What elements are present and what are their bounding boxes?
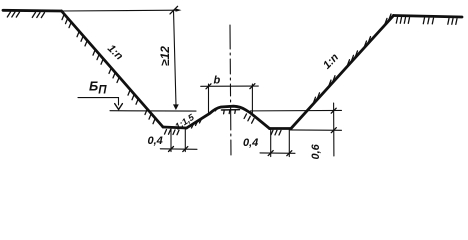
slope hatching left group 4 xyxy=(109,69,119,83)
dimension 0,6 slash top xyxy=(331,108,336,113)
ditch bottom hatching left xyxy=(165,130,180,135)
centre axis dash-dot line xyxy=(230,25,231,158)
mound crest tick 1 xyxy=(223,110,226,113)
berm level line right xyxy=(251,109,342,112)
slope hatching left group 3 xyxy=(93,50,103,64)
dimension 0,4 left extension 2 xyxy=(184,129,186,152)
dimension 0,6 slash bottom xyxy=(331,128,336,133)
dimension 0,4 left line xyxy=(160,148,197,151)
mound crest shoulder tick xyxy=(215,107,218,110)
dimension 0,4 right slash 2 xyxy=(287,151,292,156)
svg-text:1:n: 1:n xyxy=(321,51,341,71)
svg-text:b: b xyxy=(214,75,221,87)
mound left slope hatching xyxy=(192,119,202,128)
dimension 0,4 right extension 1 xyxy=(270,129,272,156)
ditch bottom level extension line right xyxy=(290,129,342,131)
dimension 0,6 vertical line xyxy=(333,103,335,156)
slope line 1:n left xyxy=(62,11,164,127)
dimension 0,4 right slash 1 xyxy=(268,151,273,156)
slope hatching right group 1 xyxy=(314,93,320,103)
mound crest level mark dash xyxy=(222,109,240,111)
berm level line left xyxy=(110,110,196,112)
svg-text:БП: БП xyxy=(89,79,107,97)
svg-text:0,6: 0,6 xyxy=(310,143,322,159)
label Bp leader line xyxy=(78,98,119,105)
depth dimension top right arrow overshoot xyxy=(176,9,182,12)
dimension 0,4 left slash 1 xyxy=(169,147,174,152)
svg-text:0,4: 0,4 xyxy=(148,135,163,147)
ground surface line left xyxy=(3,9,62,12)
dimension 0,4 right extension 2 xyxy=(288,129,290,157)
mound crest tick 2 xyxy=(228,110,231,113)
dimension b extension left xyxy=(208,84,210,113)
svg-text:1:n: 1:n xyxy=(105,43,125,63)
ground hatching left group 2 xyxy=(32,12,44,17)
depth dimension top slash tick xyxy=(170,6,178,14)
ground hatching right group 1 xyxy=(396,17,409,23)
dimension 0,4 right line xyxy=(260,152,295,154)
slope hatching left group 5 xyxy=(128,90,138,104)
mound crest tick 3 xyxy=(234,110,237,113)
slope hatching left group 6 xyxy=(145,110,155,124)
depth dimension bottom arrowhead xyxy=(173,104,179,110)
slope hatching left group 2 xyxy=(77,32,87,46)
dimension b line xyxy=(201,85,259,87)
ditch bottom hatching right xyxy=(271,130,281,135)
depth dimension top horizontal line xyxy=(62,9,179,12)
mound right slope hatching xyxy=(244,114,254,123)
cable trench mound outline xyxy=(187,106,270,128)
ground hatching right group 2 xyxy=(423,18,433,24)
ditch bottom right xyxy=(270,127,292,130)
dimension 0,4 left slash 2 xyxy=(183,147,188,152)
dimension b slash right xyxy=(250,84,255,89)
svg-text:0,4: 0,4 xyxy=(243,137,258,149)
slope hatching right group 2 xyxy=(329,76,335,86)
slope hatching right group 4 xyxy=(365,37,371,47)
svg-text:≥12: ≥12 xyxy=(158,46,172,66)
depth dimension vertical line xyxy=(174,10,177,105)
label Bp leader arrowhead xyxy=(115,104,123,110)
dimension b extension right xyxy=(251,84,253,113)
slope hatching right group 3 xyxy=(348,51,358,65)
slope line 1:n right xyxy=(291,16,394,129)
ground hatching right group 3 xyxy=(448,18,457,24)
slope hatching right group 5 xyxy=(385,14,391,24)
ditch bottom left xyxy=(163,127,187,128)
ground hatching left group 1 xyxy=(7,12,19,17)
ground surface line right xyxy=(394,16,463,18)
dimension 0,4 left extension 1 xyxy=(170,129,172,152)
slope hatching left group 1 xyxy=(62,15,71,28)
dimension b slash left xyxy=(206,84,211,89)
